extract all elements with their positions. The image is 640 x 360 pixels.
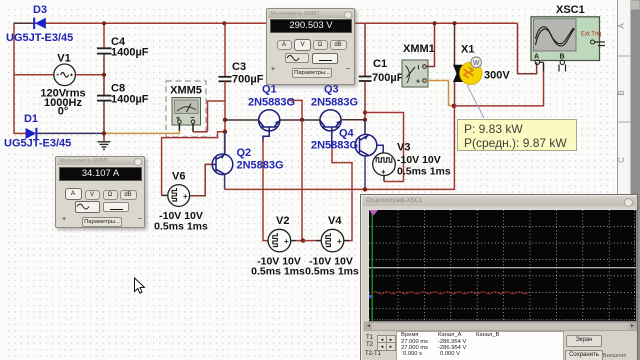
svg-text:XSC1: XSC1 xyxy=(556,4,585,16)
junction C3 bottom node xyxy=(223,118,227,122)
instrument icon XMM5 xyxy=(172,98,201,132)
capacitor C1 xyxy=(359,23,372,134)
wire lamp node to scope A xyxy=(454,64,544,106)
svg-text:700µF: 700µF xyxy=(372,72,404,84)
svg-text:+: + xyxy=(337,237,342,246)
svg-text:XMM1: XMM1 xyxy=(403,43,435,55)
source V6 xyxy=(168,185,190,207)
wire V3 loop to emitter node xyxy=(365,113,404,182)
transistor Q4 xyxy=(355,134,377,156)
svg-text:I: I xyxy=(418,65,420,72)
wire Q4 collector down to long rail xyxy=(364,156,366,189)
svg-text:V1: V1 xyxy=(57,53,70,65)
junction Q2 emitter node xyxy=(223,130,227,134)
scope graticule dotted verticals xyxy=(398,210,635,321)
junction C1 bottom xyxy=(363,110,367,114)
wire Q3 collector row xyxy=(302,119,320,121)
sheet border strip right xyxy=(617,0,631,360)
diode D1 xyxy=(26,128,37,139)
wire Q1 emitter stub up-left xyxy=(289,100,302,119)
wire XMM1 current terminal to rail xyxy=(426,23,434,66)
wire Q2 emitter lead xyxy=(224,132,226,155)
junction dots left xyxy=(102,21,106,25)
wire Q3 emitter to C1 node xyxy=(341,119,365,121)
wire emitter node down to V2 V4 junction xyxy=(301,120,303,241)
svg-text:V2: V2 xyxy=(276,215,289,227)
svg-text:D3: D3 xyxy=(33,4,47,16)
svg-text:V3: V3 xyxy=(397,142,410,154)
diode D3 xyxy=(14,18,46,29)
wire Q1 base to V2 xyxy=(263,140,268,241)
svg-text:C: C xyxy=(617,157,626,163)
svg-text:Q4: Q4 xyxy=(339,128,355,140)
svg-text:+: + xyxy=(183,192,188,201)
source V4 xyxy=(321,229,344,252)
mouse cursor xyxy=(133,277,147,295)
svg-text:1400µF: 1400µF xyxy=(111,47,149,59)
junction lamp node xyxy=(452,104,457,109)
probe leader line xyxy=(467,85,484,118)
multimeter window XMM1 xyxy=(266,8,355,85)
source V3 xyxy=(373,153,396,177)
scope channel marker xyxy=(369,294,373,299)
svg-text:Q3: Q3 xyxy=(324,84,339,96)
svg-text:2N5883G: 2N5883G xyxy=(311,97,358,109)
scope green timeline cursor xyxy=(371,210,373,321)
svg-text:XMM5: XMM5 xyxy=(170,85,202,97)
svg-text:A: A xyxy=(534,54,539,61)
wire XMM5 minus riser xyxy=(208,101,226,132)
source V2 xyxy=(268,229,291,252)
wire lamp stem lower xyxy=(454,81,456,106)
svg-text:UG5JT-E3/45: UG5JT-E3/45 xyxy=(6,32,73,44)
wire V6 left stub xyxy=(161,190,163,195)
long bottom wire to lamp node xyxy=(225,106,455,189)
wire V3 bottom stub xyxy=(383,176,385,182)
wire top rail xyxy=(14,22,518,24)
svg-text:700µF: 700µF xyxy=(232,74,264,86)
wire lamp stem upper xyxy=(454,23,456,66)
svg-text:0.5ms 1ms: 0.5ms 1ms xyxy=(154,221,208,233)
instrument icon XMM1 xyxy=(402,60,428,87)
svg-text:W: W xyxy=(473,60,480,67)
svg-text:+: + xyxy=(416,79,420,86)
svg-text:V6: V6 xyxy=(172,171,185,183)
capacitor C8 xyxy=(97,96,112,101)
svg-text:D1: D1 xyxy=(24,113,38,125)
capacitor C3 xyxy=(219,23,232,154)
svg-text:B: B xyxy=(617,90,626,95)
transistor Q1 xyxy=(259,110,280,142)
svg-text:2N5883G: 2N5883G xyxy=(311,140,358,152)
wire Q1 emitter to right junction xyxy=(280,119,302,121)
svg-text:Q1: Q1 xyxy=(262,84,277,96)
wire XMM1 plus orange to lamp node xyxy=(426,81,453,106)
scope horizontal scrollbar xyxy=(364,322,637,331)
wire orange D1 node to XMM5 plus xyxy=(104,129,179,133)
svg-text:C1: C1 xyxy=(373,58,387,70)
svg-text:300V: 300V xyxy=(484,70,510,82)
svg-text:0°: 0° xyxy=(58,106,69,118)
svg-text:0.5ms 1ms: 0.5ms 1ms xyxy=(305,266,359,278)
ground xyxy=(98,140,111,149)
svg-text:B: B xyxy=(560,54,565,61)
svg-text:X1: X1 xyxy=(461,44,474,56)
tooltip power probe xyxy=(457,119,577,151)
XMM5 selection dashed box xyxy=(166,81,206,137)
vertical scrollbar far right xyxy=(631,0,640,360)
lamp X1 xyxy=(453,57,482,85)
wire V6 right to Q2 base xyxy=(190,164,213,195)
wire Q2 collector to long rail xyxy=(224,174,226,189)
multimeter window XMM5 xyxy=(55,156,145,229)
scope zero axis solid line xyxy=(369,266,636,268)
wire left vertical xyxy=(13,23,15,134)
transistor Q3 xyxy=(320,110,341,148)
svg-text:0.5ms 1ms: 0.5ms 1ms xyxy=(397,166,451,178)
svg-text:UG5JT-E3/45: UG5JT-E3/45 xyxy=(4,138,71,150)
svg-text:-10V 10V: -10V 10V xyxy=(397,154,441,166)
wire C4/C8 column xyxy=(103,23,105,48)
wire D1 row xyxy=(14,132,26,134)
instrument icon XSC1 xyxy=(531,17,605,72)
wire Q1 collector row xyxy=(225,119,259,121)
wire V2 right to junction xyxy=(291,240,296,242)
oscilloscope window XSC1 xyxy=(360,194,638,360)
svg-text:+: + xyxy=(284,237,289,246)
wire V4 left xyxy=(303,240,316,242)
svg-text:+: + xyxy=(381,168,386,177)
junction V2 V4 xyxy=(301,238,305,242)
transistor Q2 xyxy=(212,154,233,175)
junction Q1 emitter node xyxy=(300,118,304,122)
wire XMM5 minus to emitter node xyxy=(193,131,208,133)
wire V4 right riser to Q3 base xyxy=(344,240,349,242)
svg-text:C3: C3 xyxy=(232,61,246,73)
svg-text:2N5883G: 2N5883G xyxy=(248,97,295,109)
wire Q4 base to V3 top xyxy=(377,145,384,153)
svg-text:2N5883G: 2N5883G xyxy=(237,160,284,172)
wire V1 row xyxy=(14,74,53,76)
capacitor C4 xyxy=(97,48,112,53)
wire rail end down to scope A xyxy=(518,23,537,74)
scope screen xyxy=(368,209,637,322)
svg-text:Ext Trig: Ext Trig xyxy=(581,32,601,38)
wire V6 left riser to emitter junction xyxy=(162,132,225,190)
svg-text:0.5ms 1ms: 0.5ms 1ms xyxy=(251,266,305,278)
junction Q4 collector on long rail xyxy=(363,187,367,191)
svg-text:A: A xyxy=(617,23,626,29)
svg-text:Q2: Q2 xyxy=(237,147,252,159)
source V1 xyxy=(54,64,76,86)
scope trigger marker xyxy=(369,210,378,216)
svg-text:V4: V4 xyxy=(328,215,342,227)
scope waveform trace channel A xyxy=(372,291,528,293)
wire Q4 emitter lead up xyxy=(364,120,366,135)
scope readout panel xyxy=(363,331,635,360)
svg-text:1400µF: 1400µF xyxy=(111,94,149,106)
scope graticule dotted horizontals xyxy=(369,226,636,319)
